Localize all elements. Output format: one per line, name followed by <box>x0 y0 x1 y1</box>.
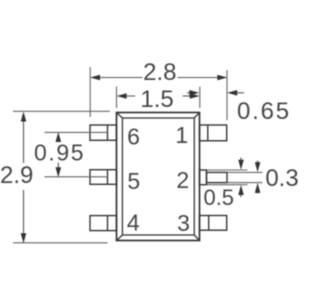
dimension 1.5 extension line left <box>116 87 118 109</box>
pin 2 foot top extension line <box>227 171 263 173</box>
dimension 1.5 extension line right <box>199 87 201 109</box>
dimension 0.5 arrows (at x=241, to neck lines) <box>240 158 242 198</box>
pin number 4 <box>127 210 140 236</box>
svg-text:1: 1 <box>175 122 188 148</box>
pin 6 (left top lead) <box>90 125 117 140</box>
dimension 0.95 line with arrows <box>57 134 59 175</box>
pin 5 (left middle lead) <box>90 170 117 185</box>
dimension 2.9 top extension line <box>13 110 110 112</box>
pin 3 (right bottom lead) <box>200 216 227 231</box>
pin number 3 <box>177 210 190 236</box>
dimension 2.8 extension line right <box>226 70 228 120</box>
pin 4 (left bottom lead) <box>90 216 117 231</box>
pin 2 neck top extension line <box>207 169 248 171</box>
svg-text:1.5: 1.5 <box>140 86 173 113</box>
pin 1 (right top lead) <box>200 125 227 141</box>
dimension 0.65 right arrow (outside, pointing left) <box>230 92 244 94</box>
svg-text:6: 6 <box>127 124 140 150</box>
svg-text:0.95: 0.95 <box>34 140 85 166</box>
dimension 2.9 line with arrows <box>23 114 25 241</box>
dimension text 2.8 <box>143 59 176 86</box>
svg-text:0.3: 0.3 <box>265 165 298 192</box>
dimension text 0.65 <box>237 98 291 125</box>
dimension text 0.3 <box>265 165 298 192</box>
svg-text:3: 3 <box>177 210 190 236</box>
svg-text:0.5: 0.5 <box>203 185 234 210</box>
svg-text:2: 2 <box>176 167 189 193</box>
package body inner bevel outline <box>117 113 200 241</box>
pin number 2 <box>176 167 189 193</box>
svg-text:4: 4 <box>127 210 140 236</box>
pin number 6 <box>127 124 140 150</box>
pin number 5 <box>127 168 140 194</box>
svg-text:5: 5 <box>127 168 140 194</box>
package body outer outline <box>117 113 200 241</box>
dimension text 0.95 <box>34 140 85 166</box>
dimension 0.3 arrows (at x=257.6, to foot lines) <box>257 161 259 194</box>
dimension 0.95 top extension line (pin 6 centerline) <box>45 131 108 133</box>
svg-text:2.8: 2.8 <box>143 59 176 86</box>
dimension text 1.5 <box>140 86 173 113</box>
dimension text 2.9 <box>0 162 33 189</box>
dimension 0.65 left arrow (outside, pointing right) <box>187 92 196 94</box>
pin 2 foot bottom extension line <box>227 182 263 184</box>
svg-text:2.9: 2.9 <box>0 162 33 189</box>
svg-text:0.65: 0.65 <box>237 98 291 125</box>
pin 2 foot (right middle lead thin part) <box>207 172 228 182</box>
dimension 1.5 line with arrows <box>118 95 198 97</box>
dimension text 0.5 <box>203 185 234 210</box>
pin 2 neck bottom extension line <box>207 184 248 186</box>
pin number 1 <box>175 122 188 148</box>
dimension 2.8 line with arrows <box>92 77 226 79</box>
dimension 2.9 bottom extension line <box>13 242 108 244</box>
dimension 2.8 extension line left <box>89 67 91 117</box>
pin 2 neck (right middle lead thick part) <box>200 170 207 185</box>
dimension 0.95 bottom extension line (pin 5 centerline) <box>45 176 108 178</box>
